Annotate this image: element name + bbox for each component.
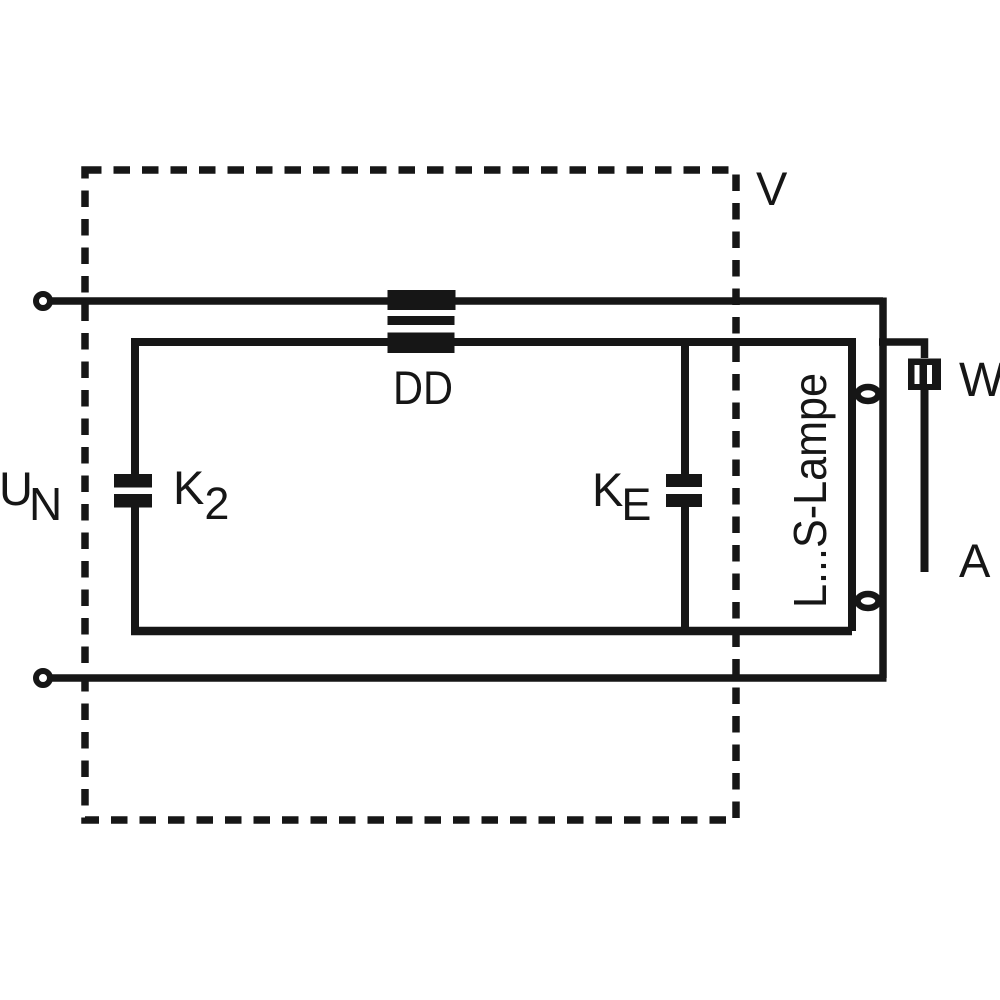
label UN (mains voltage) — [0, 462, 62, 530]
wire KE branch upper — [681, 342, 689, 474]
svg-text:A: A — [959, 534, 991, 587]
svg-text:V: V — [756, 162, 788, 215]
label DD — [393, 361, 453, 414]
capacitor KE (plates) — [666, 474, 702, 507]
terminal 2 (mains input bottom) — [36, 671, 50, 685]
wire right outer vertical (down to lamp and bottom wire) — [879, 298, 887, 679]
svg-text:W: W — [959, 354, 1000, 407]
wire bottom outer (terminal 2 to lamp bottom) — [51, 674, 887, 682]
wire top outer (terminal 1 to right corner) — [51, 297, 883, 305]
enclosure V (dashed ballast boundary) — [85, 170, 736, 820]
wire inner bottom (to lamp left bottom terminal) — [131, 627, 852, 636]
lamp L...S-Lampe (fluorescent tube with end terminals) — [858, 387, 879, 608]
capacitor K2 (plates) — [114, 474, 152, 508]
wire lamp left vertical (tube wall) — [848, 338, 856, 631]
svg-text:DD: DD — [393, 361, 453, 414]
wire inner left vertical lower — [131, 508, 139, 632]
svg-text:UN: UN — [0, 462, 62, 530]
svg-text:KE: KE — [592, 463, 651, 530]
label V — [756, 162, 788, 215]
svg-text:K2: K2 — [173, 461, 229, 529]
label W — [959, 354, 1000, 407]
wire branch to W — [879, 342, 925, 358]
wire inner top (to lamp left terminal) — [135, 338, 852, 346]
component W (box with slits) — [908, 359, 941, 391]
label KE — [592, 463, 651, 530]
terminal 1 (mains input top) — [36, 294, 50, 308]
wire below W (to terminal A, open end) — [921, 390, 929, 572]
label L...S-Lampe (rotated) — [784, 373, 836, 608]
wire KE branch lower — [681, 507, 689, 631]
label A — [959, 534, 991, 587]
svg-text:L...S-Lampe: L...S-Lampe — [784, 373, 836, 608]
choke DD (dual winding ballast bars) — [388, 290, 456, 353]
wire inner left vertical upper — [131, 338, 139, 474]
label K2 — [173, 461, 229, 529]
